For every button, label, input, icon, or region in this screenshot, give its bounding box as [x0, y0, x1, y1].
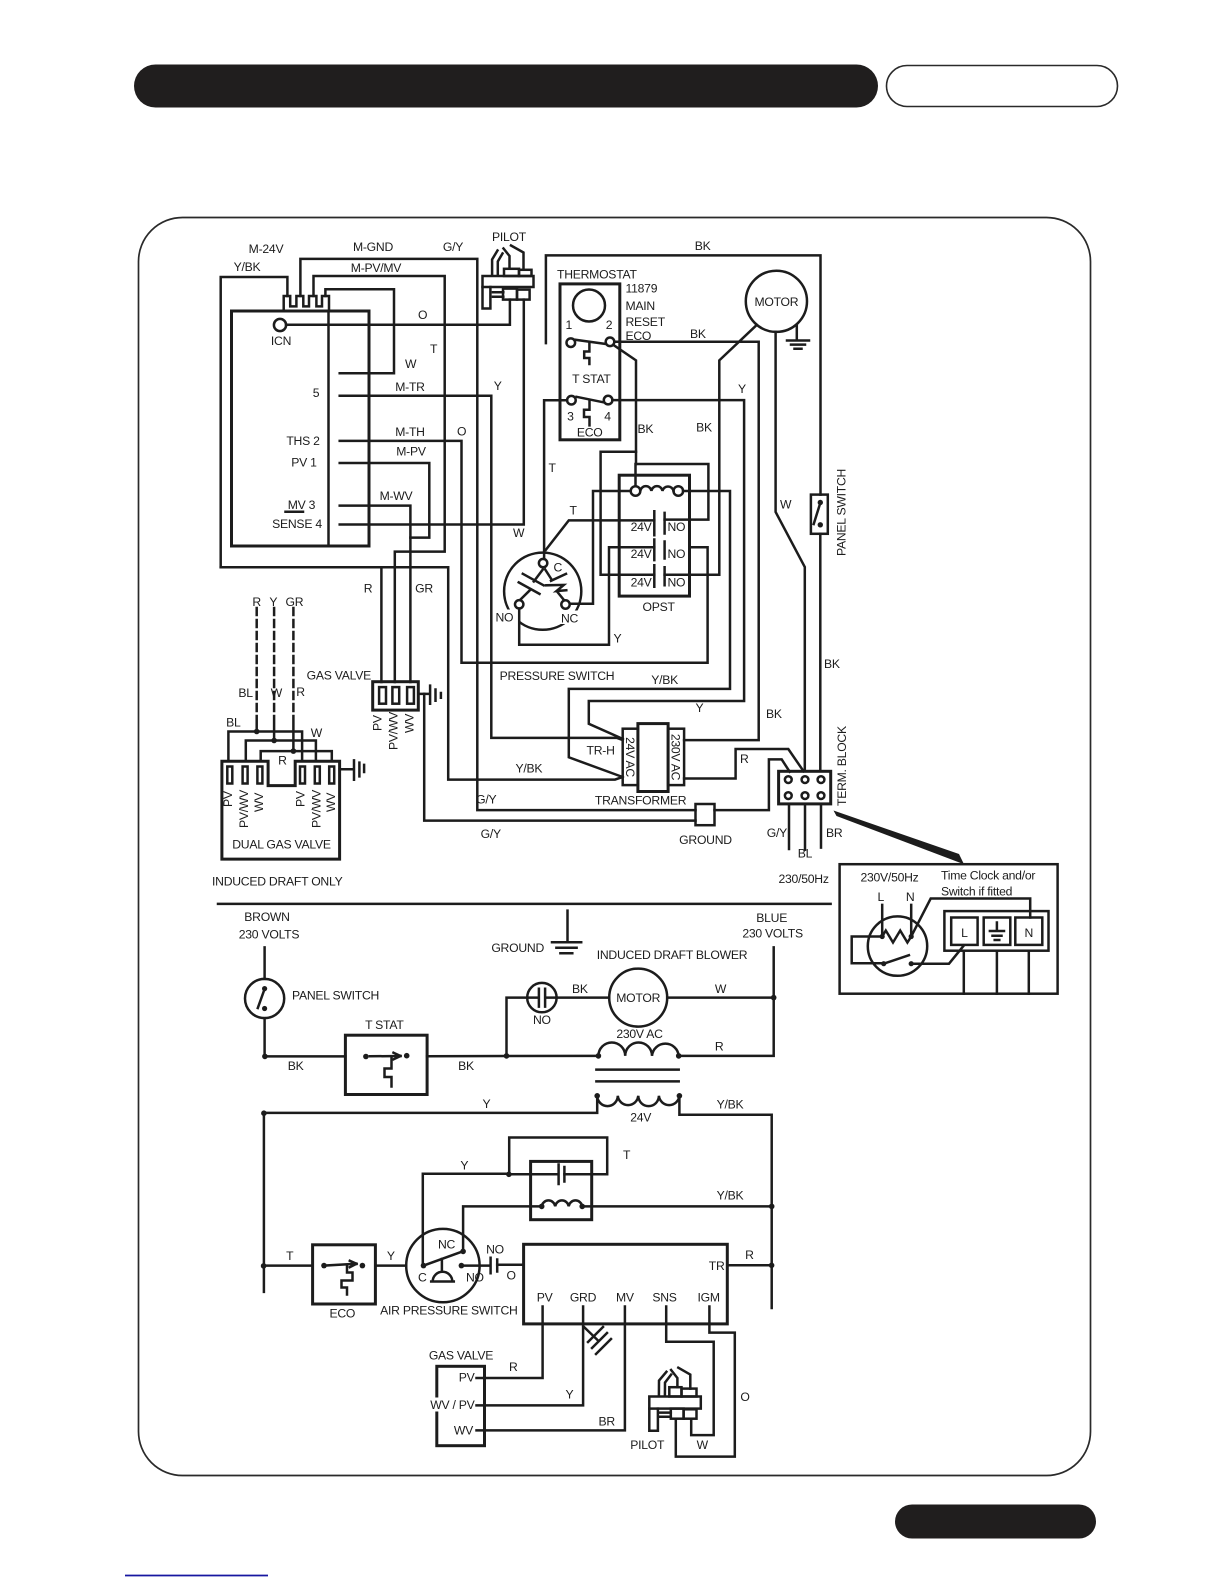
wire switch to terminal L [911, 946, 964, 964]
svg-text:O: O [507, 1269, 516, 1283]
resistor zigzag [882, 931, 911, 943]
svg-text:DUAL GAS VALVE: DUAL GAS VALVE [232, 838, 331, 852]
main diagram rounded frame [139, 218, 1091, 1476]
svg-text:Y: Y [269, 595, 277, 609]
pilot lower block left [503, 289, 517, 300]
ECO box [313, 1245, 376, 1304]
APS NC dot [460, 1249, 466, 1255]
contact2 bars [654, 540, 664, 561]
svg-text:W: W [697, 1438, 709, 1452]
svg-text:O: O [418, 308, 427, 322]
svg-text:MAIN: MAIN [626, 299, 655, 313]
capacitor bars [559, 1165, 565, 1185]
wire blue down [679, 947, 774, 1056]
t stat blade with arrow [370, 1053, 401, 1060]
svg-text:IGM: IGM [698, 1291, 720, 1305]
wire GR dashed [292, 608, 295, 716]
svg-text:BL: BL [238, 686, 253, 700]
svg-text:230/50Hz: 230/50Hz [779, 872, 829, 886]
svg-text:RESET: RESET [626, 315, 666, 329]
coil dots [594, 1093, 600, 1099]
wire capacitor to ign box [497, 1264, 523, 1267]
gas valve box (upper) [373, 682, 419, 710]
svg-text:PILOT: PILOT [492, 230, 527, 244]
svg-text:BROWN: BROWN [244, 910, 289, 924]
junction dot [261, 1263, 267, 1269]
pressure switch NC terminal [561, 600, 569, 608]
svg-text:W: W [405, 357, 417, 371]
relay coil arcs [640, 486, 673, 491]
panel switch blade [814, 503, 821, 524]
24V secondary coil [597, 1096, 679, 1106]
svg-text:AIR PRESSURE SWITCH: AIR PRESSURE SWITCH [380, 1304, 517, 1318]
t-stat blade [575, 340, 605, 344]
pilot body [483, 276, 534, 287]
svg-text:ECO: ECO [577, 425, 603, 439]
contact3 left lead loop [601, 452, 655, 575]
svg-text:W: W [513, 526, 525, 540]
pressure switch NO terminal [515, 600, 523, 608]
svg-text:R: R [715, 1040, 724, 1054]
svg-text:M-WV: M-WV [380, 489, 414, 503]
svg-text:PILOT: PILOT [630, 1438, 665, 1452]
svg-text:WV: WV [403, 713, 417, 733]
svg-text:NO: NO [496, 611, 514, 625]
svg-text:R: R [252, 595, 261, 609]
svg-text:C: C [418, 1270, 427, 1284]
svg-text:R: R [509, 1360, 518, 1374]
junction dot [506, 1172, 512, 1178]
label NC [559, 611, 584, 625]
svg-text:24V: 24V [631, 575, 653, 589]
svg-text:M-GND: M-GND [353, 240, 393, 254]
svg-text:R: R [364, 582, 373, 596]
svg-text:NC: NC [561, 612, 579, 626]
term block screws [785, 776, 792, 783]
junction dot [262, 1054, 268, 1060]
junction dot R [254, 729, 260, 735]
svg-text:BK: BK [766, 707, 782, 721]
svg-text:PV: PV [459, 1371, 476, 1385]
svg-text:M-TR: M-TR [395, 380, 425, 394]
svg-text:WV / PV: WV / PV [430, 1398, 475, 1412]
terminal ticks [477, 1378, 485, 1430]
terminal 2 circle [606, 338, 615, 347]
svg-text:BL: BL [226, 716, 241, 730]
pilot body [649, 1397, 701, 1409]
svg-text:Y: Y [565, 1388, 573, 1402]
relay coil arcs [542, 1200, 583, 1206]
pressure switch circle [504, 553, 581, 630]
gas valve box (lower) [437, 1366, 485, 1445]
svg-text:24V: 24V [631, 547, 653, 561]
wire G/Y jog into term block [715, 759, 790, 810]
pilot upper block right [682, 1389, 697, 1397]
wire TR to Y/BK bus [727, 1264, 771, 1267]
svg-text:Y/BK: Y/BK [234, 260, 261, 274]
pilot assembly (upper) [483, 230, 534, 309]
terminal 3 circle [567, 396, 576, 405]
wire NO to capacitor [464, 1264, 489, 1267]
wire IGM to pilot (O) [676, 1307, 735, 1457]
panel switch circle (lower) [245, 979, 284, 1018]
pilot tube marks [493, 292, 503, 297]
junction dot [504, 1053, 510, 1059]
svg-text:WV: WV [252, 792, 266, 812]
air pressure switch circle [406, 1229, 479, 1302]
svg-text:NO: NO [466, 1270, 484, 1284]
pilot lower block right [684, 1409, 697, 1418]
t stat dots [363, 1054, 369, 1060]
label NO [494, 610, 518, 624]
wire W crossover [246, 741, 316, 762]
svg-text:M-TH: M-TH [395, 425, 424, 439]
svg-text:NC: NC [438, 1237, 456, 1251]
pressure switch C terminal [539, 559, 547, 567]
transformer core box [638, 724, 668, 792]
wire motor W to blue [667, 996, 774, 999]
dual gas valve box [222, 761, 340, 859]
APS diaphragm [431, 1259, 454, 1282]
ECO blade with arrow [328, 1261, 357, 1267]
T STAT box [345, 1035, 427, 1094]
230V primary coil [598, 1043, 678, 1056]
svg-text:SENSE 4: SENSE 4 [272, 517, 322, 531]
GRD chassis ground [584, 1327, 612, 1355]
svg-text:N: N [906, 890, 915, 904]
wire T bus down [263, 1113, 266, 1292]
contact3 bars [654, 565, 664, 587]
svg-text:BL: BL [798, 847, 813, 861]
wire motor W to term block [776, 332, 805, 771]
motor circle (lower) [609, 969, 667, 1027]
pilot upper block right [519, 270, 532, 276]
wire M-GND / G/Y bus [300, 259, 695, 810]
ignition module box [232, 311, 370, 546]
svg-text:OPST: OPST [643, 600, 676, 614]
wire M-TR / Y to transformer 24V [340, 396, 623, 740]
svg-text:PANEL SWITCH: PANEL SWITCH [835, 469, 849, 556]
NO capacitor bars [527, 989, 556, 1007]
term block bottom wire G/Y [788, 804, 791, 849]
svg-text:BLUE: BLUE [756, 911, 787, 925]
svg-text:TERM. BLOCK: TERM. BLOCK [835, 726, 849, 806]
pressure switch blades [519, 570, 567, 600]
NO capacitor bars [491, 1258, 498, 1273]
svg-text:MOTOR: MOTOR [616, 991, 660, 1005]
svg-text:THERMOSTAT: THERMOSTAT [557, 268, 637, 282]
wire Y/BK to transformer 24V lower [221, 567, 623, 779]
230V/50Hz detail box [840, 864, 1058, 994]
svg-text:ECO: ECO [329, 1307, 355, 1321]
gas valve earth symbol [418, 686, 441, 704]
svg-text:230 VOLTS: 230 VOLTS [239, 928, 300, 942]
wire BK bus below panel switch [819, 534, 822, 772]
footer black pill [895, 1505, 1096, 1539]
wire t3 to pressure switch C [544, 400, 567, 559]
svg-text:Y: Y [387, 1249, 395, 1263]
dual valve earth symbol [340, 760, 365, 779]
NO capacitor circle [527, 983, 556, 1012]
wire R to gas valve PV [380, 567, 383, 682]
svg-text:R: R [745, 1248, 754, 1262]
svg-text:230V/50Hz: 230V/50Hz [860, 871, 918, 885]
wire Y/BK left bus from comb pin1 [221, 277, 288, 567]
capacitor lead from junction [509, 1173, 557, 1176]
svg-text:230V AC: 230V AC [616, 1027, 663, 1041]
wire MV to valve WV (BR) [485, 1307, 625, 1431]
svg-text:ICN: ICN [271, 334, 291, 348]
pilot left prong [659, 1372, 671, 1396]
pilot assembly (lower) [649, 1368, 701, 1431]
svg-text:GAS VALVE: GAS VALVE [429, 1349, 493, 1363]
junction dot [261, 1110, 267, 1116]
svg-text:PV/WV: PV/WV [309, 789, 323, 828]
panel switch contact dots [818, 500, 823, 505]
svg-text:Switch if fitted: Switch if fitted [941, 885, 1012, 899]
wire coil left to NC [570, 491, 631, 604]
svg-text:5: 5 [313, 386, 320, 400]
junction dot Y [271, 738, 277, 744]
svg-text:R: R [296, 685, 305, 699]
wire R dashed [255, 608, 258, 716]
APS blade [424, 1252, 461, 1265]
wire t2 slant BK down [613, 345, 636, 464]
thermostat dial [573, 290, 605, 322]
junction dot [769, 1263, 775, 1269]
svg-text:Y: Y [738, 382, 746, 396]
wire ICN O to pilot [286, 300, 510, 325]
svg-text:W: W [715, 982, 727, 996]
svg-text:GR: GR [286, 595, 304, 609]
thermostat box [560, 284, 620, 440]
junction dot [771, 995, 777, 1001]
wire Y/BK 24V right [679, 1096, 771, 1308]
relay coil terminals [631, 486, 641, 496]
svg-text:T: T [570, 504, 578, 518]
svg-text:M-PV/MV: M-PV/MV [351, 261, 403, 275]
svg-text:4: 4 [604, 409, 611, 423]
svg-text:W: W [780, 498, 792, 512]
wire motor BK slant to OPST contact3 [690, 325, 757, 575]
ground box [696, 804, 715, 825]
svg-text:24V AC: 24V AC [623, 737, 637, 777]
wire coil right to Y/BK bus [582, 1205, 772, 1208]
term block box [779, 771, 831, 804]
svg-text:Y: Y [696, 701, 704, 715]
svg-text:GROUND: GROUND [679, 833, 732, 847]
svg-text:BK: BK [824, 657, 840, 671]
wire R transformer to term block [684, 749, 804, 779]
wire M-PV [340, 463, 430, 538]
svg-text:Y/BK: Y/BK [717, 1098, 744, 1112]
svg-text:BK: BK [572, 982, 588, 996]
wire SENSE to pilot [340, 300, 524, 525]
pilot lower block right [517, 290, 530, 300]
section separator line [218, 903, 831, 906]
svg-text:G/Y: G/Y [476, 793, 496, 807]
wire coil loop to contact1 [636, 464, 709, 520]
capacitor loop [509, 1138, 607, 1175]
svg-text:NO: NO [668, 520, 686, 534]
junction dot GR [291, 748, 297, 754]
svg-text:BK: BK [288, 1059, 304, 1073]
svg-text:M-PV: M-PV [396, 445, 427, 459]
svg-text:3: 3 [567, 409, 574, 423]
svg-text:TR: TR [709, 1259, 725, 1273]
svg-text:BK: BK [690, 327, 706, 341]
pilot lower block left [671, 1409, 684, 1419]
pilot tube marks [659, 1413, 671, 1417]
svg-text:W: W [311, 726, 323, 740]
svg-text:NO: NO [486, 1242, 504, 1256]
earth symbol in box [990, 923, 1004, 941]
svg-text:PV/WV: PV/WV [387, 711, 401, 750]
wire G/Y from earth stem down [424, 694, 695, 821]
svg-text:BK: BK [458, 1059, 474, 1073]
panel switch blade [258, 989, 265, 1008]
wire T to ECO [264, 1264, 313, 1267]
svg-text:PRESSURE SWITCH: PRESSURE SWITCH [500, 669, 615, 683]
svg-text:R: R [278, 754, 287, 768]
svg-text:Y: Y [614, 632, 622, 646]
coil dots [596, 1053, 602, 1059]
svg-text:PV 1: PV 1 [291, 456, 317, 470]
panel switch dots [262, 986, 267, 991]
wire coil to NC [463, 1206, 542, 1251]
svg-text:BK: BK [695, 239, 711, 253]
svg-text:WV: WV [454, 1424, 474, 1438]
svg-text:NO: NO [533, 1013, 551, 1027]
gas valve slots [379, 687, 386, 704]
wire Y from APS C up [423, 1174, 509, 1266]
svg-text:C: C [554, 561, 563, 575]
label WV/PV [426, 1398, 476, 1412]
svg-text:230V AC: 230V AC [669, 734, 683, 781]
contact1 bars [654, 511, 664, 535]
wire T to contact1 lead [546, 520, 655, 550]
eco zigzag [584, 401, 590, 425]
OPST box [619, 475, 689, 596]
svg-text:G/Y: G/Y [767, 826, 787, 840]
svg-text:Y/BK: Y/BK [516, 762, 543, 776]
wire coil right to T bus [569, 491, 730, 777]
svg-text:G/Y: G/Y [481, 827, 501, 841]
ECO dots [321, 1263, 327, 1269]
wire ECO to APS [375, 1264, 406, 1267]
wire panel switch to BK line [265, 1018, 346, 1056]
transformer 230V AC box [668, 729, 684, 785]
wire up to NO capacitor [507, 998, 528, 1056]
svg-text:L: L [961, 926, 968, 940]
motor ground symbol [787, 325, 809, 349]
svg-text:O: O [457, 425, 466, 439]
wire brown down [263, 947, 266, 979]
L lead [881, 905, 884, 937]
svg-text:MV: MV [616, 1291, 635, 1305]
APS NO dot [459, 1263, 465, 1269]
svg-text:Y: Y [460, 1159, 468, 1173]
terminal bottom wires [964, 951, 1029, 994]
svg-text:PV: PV [221, 790, 235, 807]
svg-text:Y/BK: Y/BK [717, 1189, 744, 1203]
wire NO down to contact2 lead [519, 547, 609, 645]
svg-text:WV: WV [324, 792, 338, 812]
t-stat anticipator zigzag [584, 343, 589, 365]
terminal N box [1015, 918, 1042, 945]
terminal ICN circle [274, 319, 286, 331]
transformer 24V AC box [623, 729, 638, 785]
svg-text:PV/WV: PV/WV [237, 789, 251, 828]
pilot right prong [671, 1368, 690, 1389]
wire t4 Y to transformer 24V [589, 400, 744, 739]
terminal 4 circle [604, 396, 613, 405]
dual valve slots [227, 767, 232, 784]
wire BK to junction [427, 1055, 598, 1058]
header black bar [134, 65, 878, 108]
wire M-PV/MV to valve PV/WV [314, 276, 445, 682]
ignition control box [524, 1244, 728, 1324]
module inner divider [327, 311, 330, 546]
wire R crossover [261, 751, 332, 761]
svg-text:GR: GR [415, 582, 433, 596]
terminal L box [951, 918, 977, 945]
wire cap to motor [557, 996, 610, 999]
svg-text:INDUCED DRAFT ONLY: INDUCED DRAFT ONLY [212, 875, 343, 889]
relay box (lower) [531, 1161, 592, 1219]
contact2 left lead [610, 546, 655, 549]
pilot upper block left [669, 1387, 681, 1396]
svg-text:GROUND: GROUND [491, 941, 544, 955]
svg-text:T: T [430, 342, 438, 356]
svg-text:T STAT: T STAT [365, 1018, 404, 1032]
wire SNS to pilot [666, 1307, 714, 1436]
svg-text:T: T [549, 461, 557, 475]
MV underline [286, 511, 304, 514]
svg-text:MV 3: MV 3 [288, 498, 316, 512]
svg-text:T: T [286, 1249, 294, 1263]
svg-text:GRD: GRD [570, 1291, 597, 1305]
svg-text:Y: Y [494, 379, 502, 393]
svg-text:O: O [740, 1390, 749, 1404]
terminal strip outer [944, 911, 1048, 951]
wire comb pin4 to W stub [325, 289, 394, 373]
pilot upper block left [504, 269, 519, 276]
wire Y dashed [273, 608, 276, 716]
switch dots [881, 961, 886, 966]
svg-text:Time Clock and/or: Time Clock and/or [941, 869, 1035, 883]
resistor dots [880, 934, 885, 939]
ground symbol [552, 911, 581, 954]
svg-text:Y: Y [482, 1097, 490, 1111]
svg-text:L: L [878, 890, 885, 904]
svg-text:Y/BK: Y/BK [651, 673, 678, 687]
wire M-WV to valve WV [340, 506, 411, 682]
panel switch box (upper) [811, 495, 828, 534]
switch blade [884, 955, 909, 964]
svg-text:PV: PV [371, 714, 385, 731]
module connector comb [284, 296, 329, 311]
svg-text:M-24V: M-24V [249, 242, 285, 256]
header white pill outline [887, 66, 1118, 107]
svg-text:GAS VALVE: GAS VALVE [307, 669, 371, 683]
svg-text:R: R [740, 752, 749, 766]
wire t2 BK to transformer 230V [614, 342, 758, 740]
wire Y 24V left [264, 1096, 597, 1113]
svg-text:11879: 11879 [626, 282, 658, 296]
term block bottom wire BL [804, 804, 807, 850]
svg-text:SNS: SNS [652, 1291, 676, 1305]
